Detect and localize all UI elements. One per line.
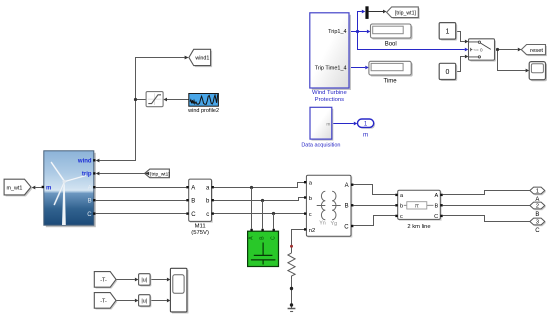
wire: constant 0 to switch [456,57,465,72]
port squares right [93,159,95,161]
wire: M11 c to transformer c [214,213,304,215]
junction dot switch output [496,48,499,51]
svg-text:(575V): (575V) [191,230,209,236]
wire: Trip1_4 blue net [349,12,465,50]
block: switch [469,39,497,62]
resistor: grounding resistor zigzag [288,253,295,280]
arrowhead into Bool display [367,30,371,34]
port 2 connection hexagon [530,202,546,218]
svg-text:m: m [326,122,330,127]
wire: phase c drop to capacitor bank [273,214,275,229]
svg-text:c: c [309,212,312,218]
svg-text:C: C [87,212,92,218]
wire: 2km line A to port 1 [443,191,530,195]
svg-text:Time: Time [383,79,397,85]
goto reset [521,45,547,57]
constant 1 [439,23,457,41]
turbine blade right [65,175,87,182]
turbine blade up-left [51,162,65,182]
mux bar [365,6,368,19]
wire: data acquisition m to outport [332,123,354,125]
svg-text:Wind Turbine: Wind Turbine [312,90,347,96]
wire: from tag -T- 1 to abs1 [116,279,135,281]
from tag -T- 1 [94,272,117,289]
svg-text:π: π [415,203,420,210]
svg-text:[trip_wt1]: [trip_wt1] [150,171,169,177]
goto [trip_wt1] [387,7,420,19]
wire: switch output to reset and scope [495,50,526,71]
svg-text:B: B [434,204,438,210]
wire: 2km line B to port 2 [443,205,530,207]
svg-text:Trip1_4: Trip1_4 [328,29,346,35]
svg-text:A: A [345,183,349,189]
block: capacitor bank (green) [248,229,279,267]
wire: Trip Time1_4 to Time display [349,67,365,69]
svg-text:m: m [46,185,51,191]
svg-text:B: B [88,199,92,205]
svg-text:Yn: Yn [319,220,326,226]
wire: resistor to ground [291,279,293,308]
svg-text:n2: n2 [309,228,315,234]
goto wind1 [189,49,212,67]
svg-text:B: B [535,212,539,218]
svg-text:c: c [206,212,209,218]
block: wind profile2 (signal source) [187,94,219,114]
svg-text:reset: reset [530,48,543,54]
svg-text:wind profile2: wind profile2 [187,108,219,114]
wire: turbine m to m_wt1 goto [35,187,41,189]
junction dot Trip1_4 [356,30,359,33]
outport oval m [358,119,376,139]
arrowhead into wind1 goto [185,56,189,60]
wire: mux to goto trip_wt1 [369,11,383,13]
block: abs1 [139,274,152,287]
block: Wind Turbine Protections subsystem [310,13,351,103]
block: M11 (575V) measurement [186,179,214,236]
wire: constant 1 to switch [456,32,465,42]
wire: phase a drop to capacitor bank [251,188,253,229]
svg-text:-T-: -T- [100,299,107,305]
display: Bool [371,24,413,48]
svg-text:-T-: -T- [100,278,107,284]
ground symbol [288,309,296,312]
svg-text:C: C [535,228,540,234]
svg-text:m: m [363,132,368,139]
svg-text:Trip Time1_4: Trip Time1_4 [315,66,347,72]
block: abs2 [139,295,152,308]
wire: M11 a to transformer a [214,183,304,188]
wire: abs2 to scope [150,300,167,302]
svg-text:b: b [309,196,312,202]
svg-text:|u|: |u| [141,299,147,305]
wire: turbine A to M11 A [95,187,186,189]
svg-text:A: A [191,186,195,192]
svg-text:C: C [434,214,438,220]
svg-text:b: b [400,204,403,210]
svg-text:m_wt1: m_wt1 [7,185,23,191]
goto m_wt1 [4,179,32,196]
wire: transformer n2 to grounding resistor [292,230,305,253]
junction dot at ground port [290,303,293,306]
junction dot phase a [250,186,253,189]
wire: wind profile2 to saturation [167,99,189,101]
port 3 connection hexagon [530,218,546,234]
svg-text:A: A [434,193,438,199]
junction dot phase c [272,212,275,215]
wire: trip_wt1 from-tag to turbine trip port [99,173,144,175]
block: Data acquisition subsystem [301,107,340,148]
svg-text:Protections: Protections [315,97,345,103]
wire: transformer B to 2km line b [353,205,395,207]
svg-text:trip: trip [82,172,92,178]
junction dot on wind net [134,98,137,101]
winding primary [317,191,326,220]
turbine hub [62,180,65,183]
svg-text:C: C [344,224,349,230]
turbine blade down-left [54,182,65,205]
port 1 connection hexagon [530,187,546,203]
svg-text:1: 1 [446,29,450,36]
svg-text:Data acquisition: Data acquisition [301,142,340,148]
junction dot below resistor [290,287,293,290]
wire: from tag -T- 2 to abs2 [116,300,135,302]
svg-text:2 km line: 2 km line [407,224,430,230]
port square m left [42,186,44,188]
svg-text:B: B [191,199,195,205]
svg-text:~= 0: ~= 0 [473,47,483,52]
wire: turbine B to M11 B [95,200,186,202]
wire: turbine C to M11 C [95,213,186,215]
svg-text:C: C [191,212,196,218]
from tag trip_wt1 [145,169,170,178]
arrowhead into mux [362,10,366,14]
svg-text:0: 0 [446,69,450,76]
svg-text:1: 1 [536,189,539,195]
node: red connection dot [290,245,293,248]
wire: wind net vertical trunk [99,58,184,161]
constant 0 [439,63,457,81]
wire: 2km line C to port 3 [443,216,530,222]
svg-text:C: C [271,236,277,240]
winding secondary [332,191,341,220]
scope (bottom left, two inputs) [170,268,188,313]
wire: phase b drop to capacitor bank [262,201,264,229]
scope (top right) [529,62,547,82]
svg-text:wind1: wind1 [194,56,209,62]
svg-text:Bool: Bool [385,42,397,48]
wire: transformer C to 2km line c [353,216,395,226]
svg-text:B: B [345,204,349,210]
svg-text:wind: wind [77,159,92,165]
block: 2 km line [395,190,442,230]
block: Wind Turbine (image block) [42,151,96,227]
wire: abs1 to scope [150,279,167,281]
junction dot phase b [261,199,264,202]
wire: transformer A to 2km line a [353,185,395,195]
block: transformer Yg [304,175,353,237]
svg-text:M11: M11 [195,223,206,229]
svg-text:Yg: Yg [331,221,338,227]
wire: M11 b to transformer b [214,198,304,201]
arrowhead into switch control [465,48,469,52]
svg-text:[trip_wt1]: [trip_wt1] [395,11,417,17]
arrowhead into turbine wind port [96,159,100,163]
turbine tower [62,183,66,225]
from tag -T- 2 [94,293,117,310]
svg-text:c: c [400,214,403,220]
block: Saturation (flipped) [146,92,163,107]
svg-text:A: A [88,186,92,192]
svg-text:3: 3 [536,220,539,226]
svg-text:2: 2 [536,204,539,210]
svg-text:|u|: |u| [141,278,147,284]
display: Time [369,61,413,84]
capacitor symbol [251,243,276,265]
